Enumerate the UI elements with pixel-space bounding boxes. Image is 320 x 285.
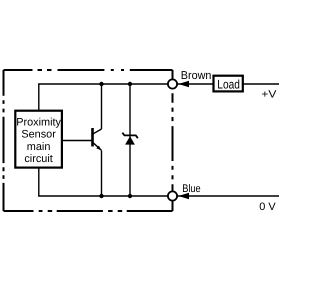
wire: Q1 emitter to 0V rail xyxy=(101,150,103,196)
svg-text:Brown: Brown xyxy=(181,70,212,82)
junction: collector to +V rail xyxy=(99,82,103,86)
wire: blue lead to 0V supply xyxy=(178,195,280,197)
svg-text:+V: +V xyxy=(261,89,276,101)
zener diode D1 (surge protection) xyxy=(122,133,137,145)
wire: load to +V supply xyxy=(243,83,279,85)
junction: zener to 0V rail xyxy=(128,194,132,198)
wire: Q1 collector to +V rail xyxy=(101,84,103,129)
svg-text:circuit: circuit xyxy=(24,153,52,165)
transistor Q1 (NPN output transistor) xyxy=(93,128,102,150)
wire: 0V rail (bottom) from main circuit to blue terminal xyxy=(39,168,173,196)
svg-text:Sensor: Sensor xyxy=(21,129,56,141)
load (external) xyxy=(214,76,243,92)
wire: zener branch vertical xyxy=(129,84,131,196)
wire: brown lead to load xyxy=(178,83,214,85)
proximity sensor main circuit block xyxy=(15,111,62,168)
junction: zener to +V rail xyxy=(128,82,132,86)
wire: +V rail (top) from main circuit to brown terminal xyxy=(39,84,173,111)
svg-text:0 V: 0 V xyxy=(259,201,276,213)
svg-text:main: main xyxy=(27,141,51,153)
wire: base drive from main circuit to Q1 xyxy=(62,140,93,142)
sensor enclosure boundary (dash-dot box) xyxy=(4,70,173,211)
terminal: brown lead xyxy=(168,79,177,88)
svg-text:Load: Load xyxy=(217,77,240,91)
svg-text:Proximity: Proximity xyxy=(16,116,61,128)
svg-text:Blue: Blue xyxy=(182,183,201,195)
current direction arrow (brown lead) xyxy=(178,81,189,88)
junction: emitter to 0V rail xyxy=(99,194,103,198)
terminal: blue lead xyxy=(168,191,177,200)
current direction arrow (blue lead) xyxy=(178,193,189,200)
